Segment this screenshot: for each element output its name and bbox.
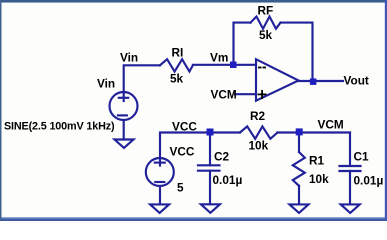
svg-text:10k: 10k: [309, 172, 329, 186]
svg-text:VCM: VCM: [318, 118, 344, 132]
svg-text:0.01µ: 0.01µ: [213, 173, 243, 187]
svg-text:C2: C2: [214, 150, 230, 164]
svg-text:5k: 5k: [259, 28, 273, 42]
svg-text:VCM: VCM: [211, 88, 237, 102]
svg-text:Vout: Vout: [344, 74, 369, 88]
svg-text:5: 5: [177, 181, 184, 195]
svg-text:C1: C1: [354, 150, 370, 164]
svg-text:Vin: Vin: [97, 77, 115, 91]
svg-text:5k: 5k: [170, 72, 184, 86]
svg-text:Vin: Vin: [120, 51, 138, 65]
svg-text:R1: R1: [309, 154, 325, 168]
svg-text:10k: 10k: [249, 139, 269, 153]
svg-text:VCC: VCC: [172, 120, 197, 134]
svg-text:VCC: VCC: [170, 145, 195, 159]
svg-text:0.01µ: 0.01µ: [354, 174, 384, 188]
svg-text:R2: R2: [250, 109, 266, 123]
svg-text:RI: RI: [172, 46, 184, 60]
svg-text:SINE(2.5 100mV 1kHz): SINE(2.5 100mV 1kHz): [4, 120, 115, 132]
svg-text:RF: RF: [258, 4, 274, 18]
svg-text:Vm: Vm: [210, 51, 228, 65]
